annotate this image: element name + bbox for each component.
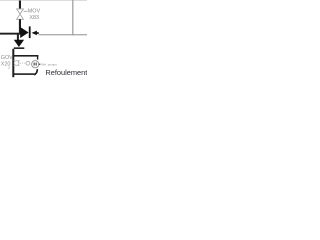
wire: branch corner down <box>37 55 38 60</box>
node: tap right of pump <box>39 64 40 65</box>
actuator GOV (circle with X) <box>14 60 20 66</box>
svg-text:GOV: GOV <box>1 55 13 61</box>
wire: label tie to MOV <box>24 10 28 12</box>
check valve (down-pointing) <box>14 40 24 47</box>
wire: bottom run from pipe <box>13 73 34 75</box>
wire: top vertical pipe <box>19 1 21 9</box>
pump M1 (circle) <box>32 61 39 68</box>
wire: stub down to lower check valve <box>17 35 19 41</box>
wire: branch to pump (top run) <box>13 55 38 57</box>
svg-text:3: 3 <box>8 66 10 70</box>
svg-text:X83: X83 <box>29 15 39 21</box>
wire: left horizontal pipe <box>0 33 21 35</box>
svg-text:Réf. pompe: Réf. pompe <box>41 63 57 67</box>
valve MOV (bowtie symbol) <box>17 9 24 19</box>
flow arrow on discharge line <box>32 31 37 36</box>
wire: lower vertical pipe <box>12 49 14 77</box>
check valve (right-pointing) <box>20 27 28 38</box>
wire: elbow up to pump <box>34 69 37 74</box>
check valve seat bar (lower) <box>14 47 24 49</box>
svg-text:MOV: MOV <box>28 9 41 15</box>
wire: gray discharge pipe to right edge <box>39 34 88 35</box>
instrument bubble (small circle) <box>26 61 30 65</box>
wire: dashed signal line <box>20 62 26 64</box>
wire: gray vertical riser at right <box>72 0 73 35</box>
wire: vertical pipe below valve <box>19 19 21 34</box>
pump M1 inner bars <box>34 63 35 66</box>
check valve seat bar <box>29 26 31 38</box>
svg-text:Refoulement: Refoulement <box>45 68 87 77</box>
